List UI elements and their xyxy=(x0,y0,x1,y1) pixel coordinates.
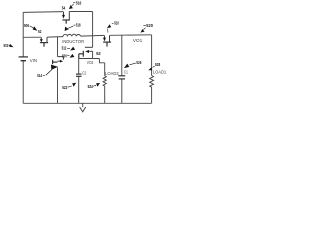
wire VO1 drop to LOAD1 xyxy=(151,35,153,76)
wire S3 column lower to ground rail xyxy=(57,67,59,103)
svg-text:502: 502 xyxy=(4,43,9,48)
transistor switch S5 (horizontal, node B to VO2) xyxy=(85,47,93,51)
svg-text:524: 524 xyxy=(88,84,94,89)
wire bottom rail xyxy=(23,102,151,104)
svg-text:C2: C2 xyxy=(82,71,87,76)
svg-text:C1: C1 xyxy=(124,69,128,74)
svg-text:510: 510 xyxy=(114,21,119,26)
svg-text:VIN: VIN xyxy=(30,58,38,64)
wire VO2 rail xyxy=(79,58,100,60)
wire left vertical lower xyxy=(22,61,24,104)
svg-text:506: 506 xyxy=(24,23,29,28)
ground xyxy=(80,103,86,112)
svg-text:520: 520 xyxy=(146,23,153,28)
wire mid rail segment A xyxy=(23,36,41,38)
wire mid rail segment D xyxy=(110,34,152,37)
label 516 xyxy=(73,2,75,4)
wire LOAD1 bottom xyxy=(151,87,153,103)
svg-text:VO2: VO2 xyxy=(87,60,94,66)
label 518 xyxy=(73,24,75,26)
svg-text:INDUCTOR: INDUCTOR xyxy=(62,39,84,44)
inductor coil xyxy=(63,34,81,36)
wire VO2 jog xyxy=(99,59,104,63)
wire C2 column lower xyxy=(78,76,80,103)
svg-text:LOAD2: LOAD2 xyxy=(105,71,119,76)
wire left vertical upper xyxy=(22,12,24,56)
wire C1 column upper xyxy=(121,35,123,76)
wire top rail right segment xyxy=(69,11,92,13)
capacitor C1 xyxy=(118,76,125,79)
label 520 xyxy=(143,25,146,27)
wire node-B lower stub to VO2 rail xyxy=(92,51,94,58)
svg-text:500: 500 xyxy=(62,53,67,58)
wire LOAD2 column upper xyxy=(104,63,106,76)
svg-text:516: 516 xyxy=(76,0,82,5)
svg-text:54: 54 xyxy=(62,5,66,10)
svg-text:52: 52 xyxy=(38,29,42,34)
transistor switch S1 (right mid rail) xyxy=(105,35,110,42)
resistor LOAD2 xyxy=(103,76,106,86)
svg-text:53: 53 xyxy=(96,51,101,56)
wire top rail left segment xyxy=(23,11,63,14)
svg-text:LOAD1: LOAD1 xyxy=(153,70,167,75)
wire mid rail segment B xyxy=(47,36,63,39)
svg-text:518: 518 xyxy=(76,22,81,27)
svg-text:522: 522 xyxy=(62,85,68,90)
wire mid rail segment C xyxy=(81,34,105,37)
transistor switch S4 (top rail) xyxy=(64,12,70,20)
battery VIN xyxy=(19,57,28,61)
wire S3 column from mid rail xyxy=(57,37,59,57)
resistor LOAD1 xyxy=(150,76,154,88)
svg-text:526: 526 xyxy=(136,60,141,65)
wire LOAD2 column lower xyxy=(104,86,106,103)
transistor switch S3 (vertical, node A to ground) xyxy=(58,57,64,62)
wire C2 column upper xyxy=(78,59,80,74)
svg-text:514: 514 xyxy=(37,73,42,78)
label 510 xyxy=(112,22,114,24)
svg-text:528: 528 xyxy=(155,62,161,67)
wire C1 column lower xyxy=(121,79,123,103)
svg-text:VO1: VO1 xyxy=(133,38,143,44)
capacitor C2 xyxy=(76,74,82,76)
wire node-B drop from top rail xyxy=(92,12,94,48)
svg-text:512: 512 xyxy=(62,46,67,51)
transistor switch S2 (left mid rail) xyxy=(41,37,47,42)
